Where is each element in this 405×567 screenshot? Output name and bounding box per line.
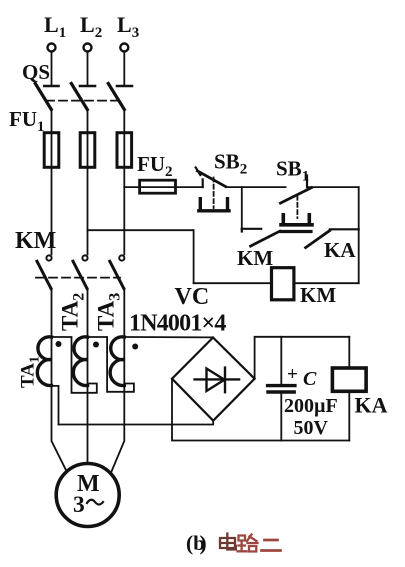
char dian: [220, 534, 236, 550]
switch QS pole 1 fixed contact: [44, 85, 58, 88]
wire TA3 top to bridge: [124, 336, 213, 338]
pushbutton SB1 right fixed contact tick: [306, 176, 308, 188]
svg-text:): ): [200, 531, 207, 555]
wire phase2 tap to control: [88, 229, 194, 231]
wire phase2 through TA2 to motor: [87, 289, 89, 464]
capacitor C bottom plate: [268, 390, 294, 393]
svg-text:KA: KA: [324, 238, 356, 262]
contact KM auxiliary blade: [251, 231, 280, 246]
svg-text:C: C: [303, 368, 317, 390]
contactor KM pole 1 blade: [37, 261, 51, 288]
wire KM auxiliary terminal tick: [241, 229, 243, 232]
wire control down leg: [193, 230, 195, 283]
contactor KM pole 3 fixed contact: [119, 255, 124, 260]
pushbutton SB2 blade end tick: [196, 168, 201, 176]
wire TA2 top link: [88, 337, 134, 392]
switch QS pole 2 blade: [71, 84, 87, 110]
svg-text:QS: QS: [22, 60, 50, 84]
capacitor C top plate: [268, 384, 295, 387]
fuse FU2: [140, 180, 176, 193]
terminal L3: [120, 44, 128, 52]
fuse FU1 pole 2: [80, 133, 95, 168]
wire phase1 through TA1 to motor: [52, 289, 67, 472]
wire KM coil to right rail: [294, 282, 359, 284]
wire DC+ to KA coil: [348, 337, 350, 368]
contactor KM mechanical link (dashed): [36, 277, 120, 279]
svg-text:L2: L2: [80, 12, 102, 41]
pushbutton SB2 button cap: [199, 199, 229, 211]
transformer TA2 polarity dot: [93, 342, 99, 348]
wire junction A down: [241, 187, 243, 229]
svg-text:KM: KM: [237, 246, 273, 270]
contactor KM pole 2 blade: [73, 261, 87, 288]
wire QS pole2 to FU1: [87, 110, 89, 255]
contactor KM pole 2 fixed contact: [82, 255, 87, 260]
pushbutton SB2 actuator link (dashed): [213, 178, 215, 209]
wire node bar under SB1: [281, 230, 311, 233]
wire to KM coil: [194, 282, 272, 284]
svg-text:1N4001×4: 1N4001×4: [129, 311, 226, 337]
transformer TA3 secondary winding: [110, 337, 124, 386]
wire right rail down: [358, 187, 360, 283]
pushbutton SB2 blade: [198, 171, 226, 187]
switch QS mechanical link (dashed): [46, 100, 118, 102]
switch QS pole 3 blade: [108, 84, 124, 110]
contactor KM pole 3 blade: [110, 261, 124, 288]
svg-text:50V: 50V: [294, 417, 329, 439]
svg-text:FU1: FU1: [9, 107, 45, 135]
svg-text:VC: VC: [175, 284, 210, 310]
svg-text:SB1: SB1: [276, 157, 309, 185]
pushbutton SB1 actuator link (dashed): [296, 196, 298, 218]
pushbutton SB1 button cap: [281, 215, 312, 225]
relay coil KA: [332, 368, 366, 391]
fuse FU1 pole 1: [44, 133, 59, 168]
switch QS pole 3 fixed contact: [117, 85, 132, 88]
svg-text:KM: KM: [15, 228, 56, 254]
svg-text:3: 3: [73, 492, 85, 518]
wire QS pole1 to FU1: [51, 110, 53, 255]
svg-text:L3: L3: [117, 12, 139, 41]
svg-text:TA2: TA2: [58, 293, 88, 331]
wire bridge right corner to DC+ bus: [255, 337, 350, 379]
motor tilde: [87, 500, 103, 505]
svg-text:TA3: TA3: [94, 293, 124, 331]
svg-text:FU2: FU2: [137, 152, 173, 180]
switch QS pole 1 blade: [35, 84, 51, 110]
svg-text:SB2: SB2: [214, 150, 247, 178]
motor M circle: [56, 464, 119, 527]
capacitor C positive lead: [280, 337, 282, 384]
caption characters dian-lu-er (red): [220, 534, 281, 552]
diode symbol inside bridge: [195, 368, 240, 393]
pushbutton SB2 left fixed contact tick: [202, 179, 204, 187]
transformer TA3 polarity dot: [132, 344, 138, 350]
svg-text:KM: KM: [300, 283, 336, 307]
svg-text:KA: KA: [355, 393, 388, 418]
transformer TA1 polarity dot: [56, 341, 62, 347]
svg-text:200µF: 200µF: [284, 395, 338, 417]
transformer TA1 secondary winding: [37, 337, 51, 386]
wire L3 tap to FU2: [124, 186, 202, 188]
capacitor C negative lead: [280, 394, 282, 441]
wire SB2 to SB1: [226, 186, 286, 188]
pushbutton SB1 blade: [280, 188, 311, 204]
wire L2 to QS: [87, 52, 89, 85]
wire QS pole3 to FU1: [123, 110, 125, 255]
contact KM auxiliary fixed side: [242, 228, 261, 230]
terminal L2: [84, 44, 92, 52]
contact KA fixed side: [330, 228, 359, 230]
switch QS pole 2 fixed contact: [80, 85, 95, 88]
wire bridge left corner to DC- bus: [172, 379, 349, 441]
svg-text:L1: L1: [44, 12, 66, 41]
wire TA1 top link: [52, 337, 97, 393]
terminal L1: [48, 44, 56, 52]
rectifier VC bridge diamond: [172, 338, 255, 421]
wire L3 to QS: [123, 52, 125, 85]
coil KM: [272, 268, 294, 300]
wire SB1 to right rail: [307, 186, 359, 188]
transformer TA2 secondary winding: [73, 337, 87, 386]
svg-text:+: +: [287, 364, 298, 385]
fuse FU1 pole 3: [117, 133, 132, 168]
contact KA blade: [306, 231, 330, 248]
char er: [262, 540, 281, 551]
wire L1 to QS: [51, 52, 53, 85]
contactor KM pole 1 fixed contact: [46, 255, 51, 260]
wire phase3 through TA3 to motor: [111, 289, 124, 472]
wire TA1 bottom to AC bus: [52, 386, 59, 425]
char lu: [238, 535, 258, 552]
wire KA coil to DC- bus: [348, 391, 350, 440]
wire AC bus to bridge bottom: [59, 421, 214, 425]
